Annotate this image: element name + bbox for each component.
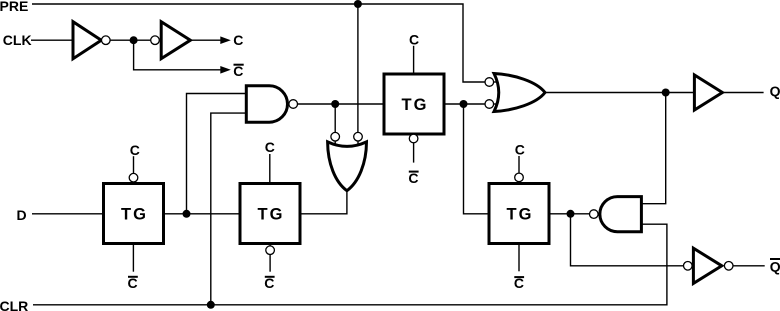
bubble U6 output: [590, 210, 599, 219]
wire TG2 bubble to C-bar: [269, 255, 271, 272]
bubble U1 output: [102, 36, 111, 45]
wire node to OR G2 left input: [334, 104, 336, 132]
svg-text:PRE: PRE: [0, 0, 28, 14]
wire U6 upper input from Q node: [641, 93, 665, 204]
svg-text:CLK: CLK: [3, 32, 32, 48]
bubble U2 input: [151, 36, 160, 45]
svg-text:C: C: [409, 31, 419, 47]
junction TG3 output node: [460, 100, 468, 108]
wire TG3 output to OR G3 lower input: [444, 103, 485, 105]
svg-text:TG: TG: [402, 96, 429, 114]
junction D-latch node: [183, 210, 191, 218]
svg-text:D: D: [17, 207, 27, 223]
bubble U4 output: [724, 262, 733, 271]
wire U2 output to C: [190, 39, 220, 41]
svg-text:C: C: [265, 139, 275, 155]
junction Q node: [662, 89, 670, 97]
wire C to TG4 bubble: [518, 156, 520, 173]
wire U5 output to TG3: [298, 103, 384, 105]
or gate G2 (pointing down): [328, 142, 367, 191]
bubble TG4 top: [515, 173, 524, 182]
wire branch to C-bar: [134, 40, 221, 70]
stub G3 lower input: [494, 103, 499, 105]
or gate G3: [494, 74, 545, 112]
wire U4 output to Q-bar: [733, 265, 765, 267]
svg-text:CLR: CLR: [0, 298, 28, 311]
bubble G3 lower input: [485, 100, 494, 109]
transmission gate TG1: [104, 184, 164, 244]
transmission gate TG4: [489, 184, 549, 244]
stub G3 upper input: [494, 81, 499, 83]
bubble U4 input: [684, 262, 693, 271]
wire CLR to NAND U5 lower input: [211, 113, 247, 305]
inverter U4: [693, 248, 721, 283]
junction CLR node: [207, 301, 215, 309]
junction C-buffer node: [130, 36, 138, 44]
bubble TG2 bottom: [266, 246, 275, 255]
bubble G2 right input: [354, 132, 363, 141]
wire PRE to OR gate G2 right input: [357, 4, 359, 132]
wire TG4 output to NAND U6: [549, 213, 589, 215]
wire node to NAND U5 upper input: [187, 94, 247, 214]
svg-text:TG: TG: [121, 206, 148, 224]
bubble U5 output: [289, 100, 298, 109]
wire G2 output to TG2 output node: [300, 191, 347, 214]
svg-text:C: C: [130, 142, 140, 158]
wire D to TG1: [32, 213, 104, 215]
wire CLK to inverter U1: [31, 39, 73, 41]
wire TG1 bottom to C-bar: [132, 244, 134, 272]
svg-text:C: C: [233, 32, 243, 48]
inverter U1: [73, 22, 101, 59]
wire C to TG2 top: [269, 154, 271, 184]
buffer U3: [694, 75, 722, 110]
wire C to TG1 bubble: [133, 156, 135, 173]
wire C to TG3 top: [413, 46, 415, 74]
stub G2 left input: [334, 141, 336, 146]
wire node down to TG4 input: [464, 104, 490, 214]
arrowhead C: [220, 36, 231, 44]
wire U1 to U2: [110, 39, 150, 41]
nand gate U6 (mirrored, output left): [600, 197, 642, 232]
buffer U2: [161, 22, 190, 59]
junction U5 output node: [331, 100, 339, 108]
wire PRE top rail: [32, 4, 485, 82]
svg-text:C: C: [515, 142, 525, 158]
wire TG1 output to TG2: [164, 213, 241, 215]
stub TG2 bottom: [269, 244, 271, 247]
bubble G3 upper input: [485, 78, 494, 87]
wire G3 output to buffer U3: [545, 92, 694, 94]
wire TG4 bottom to C-bar: [518, 244, 520, 272]
junction Q-bar feedback node: [567, 210, 575, 218]
arrowhead C-bar: [220, 66, 231, 74]
wire U6 lower input from CLR: [33, 224, 667, 305]
svg-text:Q: Q: [770, 83, 780, 99]
bubble TG3 bottom: [409, 134, 418, 143]
transmission gate TG3: [384, 74, 444, 134]
nand gate U5: [246, 86, 287, 122]
wire TG3 bubble to C-bar: [413, 143, 415, 163]
svg-text:TG: TG: [507, 206, 534, 224]
junction PRE node: [354, 0, 362, 8]
svg-text:Q: Q: [770, 259, 780, 275]
wire node to inverter U4: [571, 214, 684, 266]
stub G2 right input: [357, 141, 359, 146]
wire U3 output to Q: [722, 92, 763, 94]
svg-text:TG: TG: [258, 206, 285, 224]
bubble TG1 top: [129, 173, 138, 182]
bubble G2 left input: [331, 132, 340, 141]
transmission gate TG2: [240, 184, 300, 244]
